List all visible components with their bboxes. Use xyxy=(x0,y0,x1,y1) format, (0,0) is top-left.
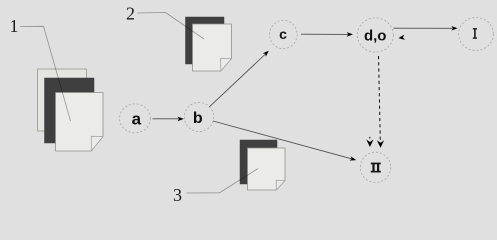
document stack 1: front white sheet with folded corner xyxy=(56,93,104,152)
node II xyxy=(360,152,390,182)
svg-text:a: a xyxy=(132,109,142,128)
leader line 3 xyxy=(187,169,259,194)
label 2 xyxy=(126,4,135,24)
node I xyxy=(459,18,494,51)
svg-text:b: b xyxy=(193,110,203,127)
svg-text:3: 3 xyxy=(173,185,182,205)
dashed arrow d,o->II xyxy=(377,56,384,148)
arrow d,o->I xyxy=(394,26,458,31)
lone down arrowhead onto II (invisible-line dashed arrow) xyxy=(366,137,373,147)
svg-text:c: c xyxy=(279,26,287,42)
leader line 2 xyxy=(137,13,204,40)
document stack 1: back light sheet xyxy=(38,69,87,131)
svg-text:1: 1 xyxy=(10,16,19,36)
node d,o xyxy=(357,18,393,52)
document stack 1: dark sheet xyxy=(45,78,95,143)
document 3: front white sheet with folded corner xyxy=(248,148,286,190)
arrow a->b xyxy=(153,117,184,122)
node b xyxy=(184,102,213,131)
svg-text:2: 2 xyxy=(126,4,135,24)
label 1 xyxy=(10,16,19,36)
document 2: dark sheet xyxy=(186,17,225,64)
leader line 1 xyxy=(20,26,71,121)
label 3 xyxy=(173,185,182,205)
arrow b->c xyxy=(209,51,268,107)
node a xyxy=(120,104,151,133)
lone left arrowhead at right of d,o xyxy=(398,35,405,41)
svg-text:d,o: d,o xyxy=(364,28,387,45)
arrow b->II xyxy=(213,121,356,161)
document 2: front white sheet with folded corner xyxy=(193,24,232,71)
document 3: dark sheet xyxy=(240,140,277,184)
arrow c->d,o xyxy=(301,32,353,37)
node c xyxy=(270,20,298,48)
